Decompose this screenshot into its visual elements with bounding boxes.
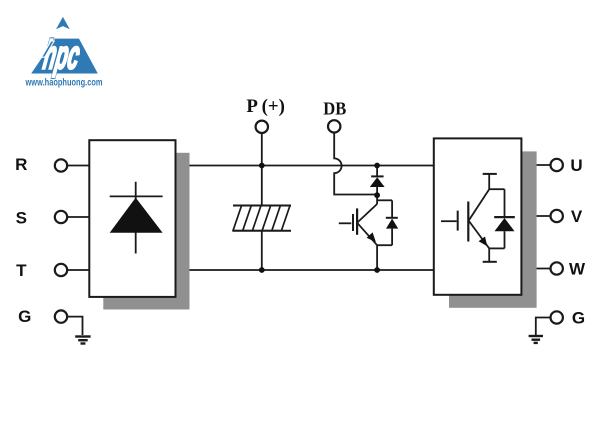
svg-text:V: V xyxy=(571,207,583,226)
svg-text:G: G xyxy=(572,309,585,328)
svg-text:S: S xyxy=(16,208,27,227)
svg-text:P (+): P (+) xyxy=(246,97,285,117)
svg-text:www.haophuong.com: www.haophuong.com xyxy=(25,78,103,89)
svg-text:W: W xyxy=(569,260,586,279)
svg-text:T: T xyxy=(16,261,27,280)
svg-text:R: R xyxy=(15,155,27,174)
svg-text:DB: DB xyxy=(323,98,346,118)
svg-text:G: G xyxy=(18,307,31,326)
svg-text:U: U xyxy=(570,156,582,175)
